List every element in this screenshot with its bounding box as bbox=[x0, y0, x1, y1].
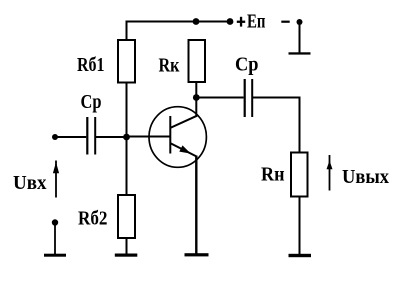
node junction dot at Rk column on rail bbox=[193, 18, 200, 25]
node input lower terminal dot bbox=[52, 219, 58, 225]
wire collector node to Cp output left plate bbox=[196, 97, 243, 99]
ground input bar bbox=[44, 254, 66, 257]
svg-text:Ср: Ср bbox=[235, 54, 259, 76]
svg-text:Uвых: Uвых bbox=[342, 166, 389, 188]
wire top supply rail bbox=[127, 21, 231, 23]
wire Rb1 top vertical bbox=[126, 21, 128, 41]
svg-text:Rб2: Rб2 bbox=[78, 208, 108, 230]
ground emitter bar bbox=[185, 253, 209, 256]
svg-text:Еп: Еп bbox=[247, 11, 266, 33]
transistor Q1 collector lead diagonal bbox=[170, 116, 197, 128]
wire Rn bottom to ground bbox=[299, 197, 301, 255]
ground supply right terminal bar bbox=[289, 52, 311, 54]
label +Ep plus sign bbox=[237, 17, 245, 27]
resistor Rn bbox=[291, 153, 308, 197]
wire collector vertical bbox=[195, 98, 197, 118]
transistor Q1 circle bbox=[149, 107, 206, 168]
svg-text:Rн: Rн bbox=[261, 164, 285, 186]
transistor Q1 base bar bbox=[169, 116, 171, 154]
capacitor Cp input left plate bbox=[86, 117, 88, 155]
wire Cp output right plate to load corner bbox=[253, 97, 301, 99]
wire Cp right plate to base node bbox=[96, 136, 127, 138]
svg-text:Ср: Ср bbox=[81, 91, 102, 113]
resistor Rk bbox=[189, 40, 206, 82]
capacitor Cp output left plate bbox=[244, 79, 246, 117]
wire input lower terminal to ground bbox=[54, 223, 56, 255]
arrow Uvyx up arrow bbox=[327, 155, 333, 191]
capacitor Cp output right plate bbox=[251, 79, 253, 117]
svg-text:Rк: Rк bbox=[159, 55, 180, 77]
wire supply right terminal drop bbox=[299, 22, 301, 53]
wire base node to transistor base bbox=[127, 136, 171, 138]
resistor Rb1 bbox=[118, 40, 135, 83]
node collector junction dot bbox=[193, 94, 200, 101]
node base junction dot bbox=[123, 134, 130, 141]
wire Rb1 bottom to base node bbox=[126, 83, 128, 138]
transistor Q1 emitter arrowhead bbox=[179, 145, 191, 153]
capacitor Cp input right plate bbox=[94, 117, 96, 155]
wire base node down to Rb2 bbox=[126, 137, 128, 195]
node supply right terminal dot bbox=[297, 19, 303, 25]
svg-text:Uвх: Uвх bbox=[13, 172, 47, 194]
node input terminal dot bbox=[52, 134, 58, 140]
ground Rb2 bar bbox=[115, 254, 138, 257]
svg-text:Rб1: Rб1 bbox=[77, 54, 105, 76]
wire load corner down to Rn bbox=[299, 98, 301, 153]
transistor Q1 emitter lead diagonal bbox=[170, 143, 197, 157]
wire input to Cp left plate bbox=[55, 136, 86, 138]
wire Rk bottom to collector node bbox=[195, 82, 197, 98]
wire Rb2 bottom to ground bbox=[126, 238, 128, 254]
node supply left terminal dot bbox=[227, 18, 234, 25]
arrow Uvx up arrow bbox=[53, 161, 59, 198]
resistor Rb2 bbox=[118, 195, 135, 238]
wire emitter vertical to ground bbox=[195, 156, 197, 255]
label minus sign bbox=[281, 21, 289, 23]
ground Rn bar bbox=[289, 254, 312, 257]
